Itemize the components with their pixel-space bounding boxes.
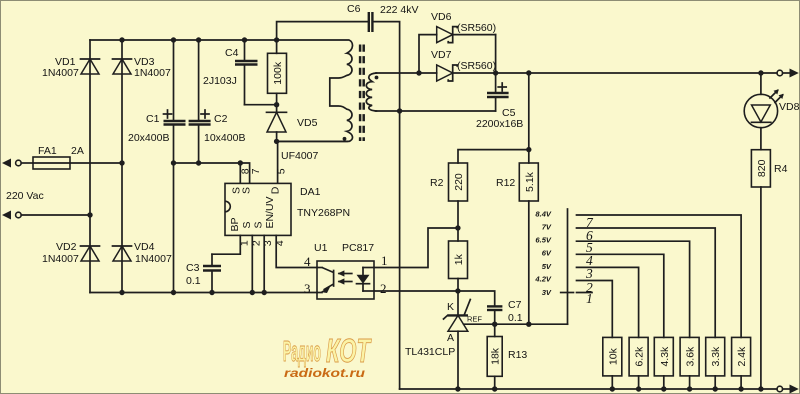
resistor R12 5.1k [496, 163, 538, 201]
svg-text:1: 1 [586, 291, 593, 306]
svg-text:1N4007: 1N4007 [135, 253, 172, 265]
wire: drain pin5 column [277, 141, 279, 183]
capacitor C4 snubber [203, 40, 258, 105]
svg-text:2: 2 [380, 281, 387, 296]
svg-text:VD8: VD8 [779, 101, 800, 113]
resistor 3.3k [706, 337, 725, 389]
wire: DA1 pin1 BP to C3 [212, 235, 240, 254]
svg-text:VD4: VD4 [134, 241, 155, 253]
transformer T1 primary winding [90, 40, 353, 141]
svg-text:20x400B: 20x400B [128, 132, 169, 144]
resistor 4.3k [654, 337, 673, 389]
wire: primary ground rail y=292.5 [90, 292, 317, 294]
IC DA1 TNY268PN body [225, 183, 350, 235]
svg-text:TL431CLP: TL431CLP [405, 346, 455, 358]
capacitor C5 [476, 73, 523, 130]
capacitor C1 [128, 40, 186, 293]
svg-text:220 Vac: 220 Vac [6, 190, 44, 202]
svg-text:R13: R13 [508, 349, 527, 361]
svg-text:0.1: 0.1 [186, 275, 201, 287]
wire: secondary ground bus y=389 [400, 388, 777, 390]
svg-text:S: S [240, 187, 252, 194]
svg-text:C3: C3 [186, 262, 200, 274]
selector tap 6 (7V) [577, 228, 716, 337]
svg-text:S: S [253, 221, 265, 228]
svg-text:EN/UV: EN/UV [264, 196, 276, 228]
svg-text:4.2V: 4.2V [534, 275, 552, 284]
svg-text:D: D [269, 186, 281, 194]
input terminal N arrow+circle [2, 211, 21, 220]
svg-text:5.1k: 5.1k [524, 171, 536, 192]
svg-text:R12: R12 [496, 177, 515, 189]
transformer secondary polarity dot [375, 76, 379, 80]
svg-text:C1: C1 [146, 113, 160, 125]
shunt regulator TL431CLP [405, 300, 482, 390]
svg-text:UF4007: UF4007 [281, 150, 319, 162]
svg-text:3.6k: 3.6k [685, 346, 697, 367]
svg-text:C2: C2 [214, 113, 228, 125]
selector wiper tick (position 1) [561, 292, 574, 294]
wire: VD5 anode node to transformer primary bottom [277, 140, 347, 142]
svg-text:18k: 18k [490, 347, 502, 365]
svg-text:FA1: FA1 [38, 145, 57, 157]
svg-text:10k: 10k [607, 347, 619, 365]
svg-text:K: K [447, 301, 454, 313]
svg-text:R2: R2 [430, 177, 444, 189]
svg-text:1N4007: 1N4007 [42, 253, 79, 265]
watermark Радио КОТ [283, 332, 372, 369]
svg-text:A: A [447, 332, 454, 344]
optocoupler U1 PC817 [304, 242, 388, 299]
wire: N input to VD1/VD2 node [21, 214, 90, 216]
svg-text:1N4007: 1N4007 [42, 67, 79, 79]
svg-text:3V: 3V [542, 288, 552, 297]
svg-text:3: 3 [304, 281, 311, 296]
wire: U1 pin2 to TL431 K node [374, 290, 458, 292]
wire: fuse to VD3/VD4 node [70, 162, 122, 164]
diode VD1 [42, 56, 100, 79]
selector tap 3 (5V) [577, 267, 639, 337]
svg-text:7: 7 [250, 168, 262, 174]
svg-text:4: 4 [304, 254, 311, 269]
capacitor C7 [458, 291, 523, 324]
diode VD6 (SR560) [431, 11, 496, 43]
diode VD5 [267, 105, 319, 162]
svg-text:2.4k: 2.4k [736, 346, 748, 367]
transformer core [360, 45, 364, 142]
svg-text:222 4kV: 222 4kV [380, 4, 419, 16]
resistor 2.4k [732, 337, 751, 389]
diode VD3 [113, 56, 171, 79]
svg-text:Радио: Радио [283, 336, 321, 368]
svg-text:3.3k: 3.3k [710, 346, 722, 367]
svg-text:VD5: VD5 [297, 117, 318, 129]
wire: R2/R12 top riser from output rail [528, 73, 530, 163]
svg-text:0.1: 0.1 [508, 312, 523, 324]
svg-text:8.4V: 8.4V [535, 210, 552, 219]
selector switch common bar [567, 209, 569, 324]
svg-text:U1: U1 [314, 242, 328, 254]
resistor 100k [268, 40, 287, 105]
svg-text:DA1: DA1 [300, 186, 321, 198]
svg-text:820: 820 [756, 159, 768, 177]
DA1 pin numbers 8 7 5 (rotated) [239, 168, 287, 174]
svg-text:C7: C7 [508, 299, 522, 311]
svg-text:6.5V: 6.5V [535, 236, 552, 245]
wire: REF line y=324.2 [464, 323, 568, 325]
selector tap 7 (8.4V) [577, 215, 742, 337]
DA1 pin numbers 1 2 3 4 (rotated) [239, 240, 287, 246]
wire: DA1 pin4 EN/UV to U1 pin4 [276, 235, 317, 267]
svg-text:S: S [241, 221, 253, 228]
svg-text:1k: 1k [453, 253, 465, 265]
svg-text:6.2k: 6.2k [634, 346, 646, 367]
svg-text:C6: C6 [347, 3, 361, 15]
svg-text:7V: 7V [542, 223, 552, 232]
svg-text:VD6: VD6 [431, 11, 452, 23]
voltage labels 8.4V..3V [534, 210, 552, 297]
svg-text:5: 5 [275, 168, 287, 174]
svg-text:3: 3 [585, 266, 593, 281]
diode VD2 [42, 241, 100, 265]
ground bus terminal circle and arrow [777, 385, 799, 394]
svg-text:2200x16B: 2200x16B [476, 118, 523, 130]
wire: output rail y=73 [453, 72, 777, 74]
capacitor C2 [189, 40, 246, 163]
resistor R13 18k [487, 324, 527, 389]
wire: secondary top to VD7 anode node [376, 72, 437, 74]
svg-text:1: 1 [381, 253, 388, 268]
svg-text:2J103J: 2J103J [203, 75, 237, 87]
resistor R2 220 [430, 163, 468, 201]
wire: secondary return y=110.2 [376, 110, 496, 112]
svg-text:1N4007: 1N4007 [134, 67, 171, 79]
diode VD4 [113, 241, 172, 265]
selector tap 1 (3V) [577, 292, 593, 294]
DA1 pin labels BP S S EN/UV (bottom row, rotated) [229, 196, 276, 231]
selector tap 5 (6.5V) [577, 241, 690, 337]
resistor 3.6k [680, 337, 699, 389]
svg-text:VD2: VD2 [56, 241, 77, 253]
wire: 1k bottom to TL431 cathode [457, 279, 459, 316]
svg-text:2A: 2A [71, 145, 84, 157]
wire: DA1 pin2 to primary ground rail [251, 235, 253, 292]
selector position numbers 7..1 [585, 215, 594, 306]
svg-text:TNY268PN: TNY268PN [297, 207, 350, 219]
wire: C4 bottom to 100k bottom [245, 104, 277, 106]
input terminal L (fuse line) arrow+circle [2, 159, 33, 168]
svg-text:6V: 6V [542, 249, 552, 258]
wire: VD6 parallel branch riser [419, 35, 437, 73]
svg-text:4.3k: 4.3k [659, 346, 671, 367]
resistor 6.2k [629, 337, 648, 389]
svg-text:R4: R4 [774, 163, 788, 175]
svg-text:BP: BP [229, 217, 241, 231]
diode VD7 (SR560) [431, 49, 496, 81]
wire: R2 bottom to 1k top [457, 201, 459, 241]
transformer primary polarity dot [343, 137, 347, 141]
wire: S-pins bus segment y=163 [174, 163, 250, 183]
capacitor C3 [186, 254, 221, 292]
wire: VD3/VD4 column x=122 [121, 40, 123, 293]
wire: DA1 pin3 to primary ground rail [263, 235, 265, 292]
output terminal + circle and arrow [777, 69, 799, 78]
wire: branch to R2 top [458, 150, 529, 163]
resistor 10k [603, 337, 622, 389]
transformer secondary winding [366, 73, 376, 111]
resistor 1k [449, 241, 468, 279]
wire: R12 bottom to REF line [528, 201, 530, 324]
selector tap 4 (6V) [577, 254, 664, 337]
resistor R4 820 [751, 150, 787, 389]
wire: VD6 cathode drop to output node [495, 35, 497, 73]
svg-text:C4: C4 [225, 47, 239, 59]
svg-text:PC817: PC817 [342, 242, 374, 254]
LED VD8 [744, 73, 799, 150]
svg-text:REF: REF [467, 315, 482, 324]
DA1 pin labels S S D (top row, rotated) [231, 186, 282, 194]
wire: pin8 stub [239, 163, 241, 183]
fuse FA1 [33, 145, 84, 169]
svg-text:radiokot.ru: radiokot.ru [284, 368, 365, 380]
wire: R2/1k node to U1 pin1 [374, 228, 458, 268]
wire: bridge left column x=90 (node AC1) [89, 40, 91, 293]
svg-text:VD7: VD7 [431, 49, 452, 61]
svg-text:100k: 100k [272, 61, 284, 85]
svg-text:5V: 5V [542, 262, 552, 271]
svg-text:220: 220 [453, 173, 465, 191]
selector tap 2 (4.2V) [577, 281, 613, 338]
svg-text:10x400B: 10x400B [204, 132, 245, 144]
capacitor C6 [277, 3, 419, 389]
svg-text:КОТ: КОТ [326, 332, 372, 369]
svg-text:(SR560): (SR560) [457, 22, 496, 34]
svg-text:(SR560): (SR560) [457, 60, 496, 72]
